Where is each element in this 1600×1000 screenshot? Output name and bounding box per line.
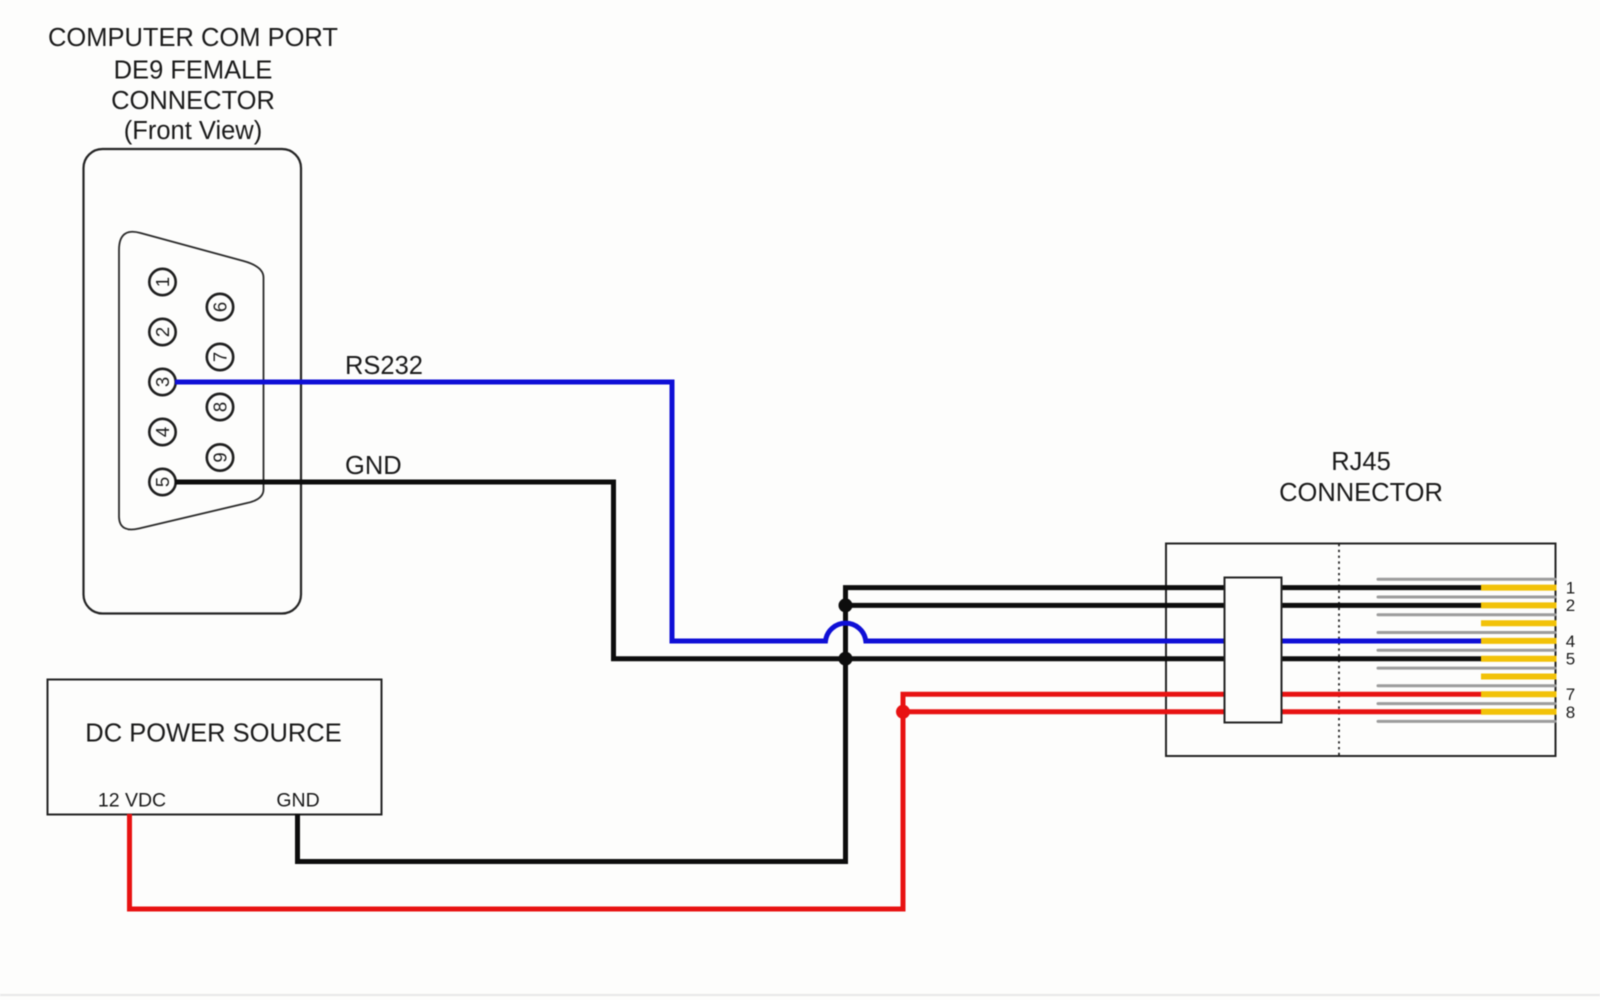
svg-text:5: 5 xyxy=(1566,650,1575,669)
svg-text:3: 3 xyxy=(152,377,173,387)
svg-text:12 VDC: 12 VDC xyxy=(98,790,166,812)
svg-text:(Front View): (Front View) xyxy=(124,117,262,145)
svg-text:GND: GND xyxy=(345,452,402,480)
svg-text:RJ45: RJ45 xyxy=(1331,448,1391,476)
svg-text:8: 8 xyxy=(1566,703,1575,722)
svg-text:4: 4 xyxy=(1566,632,1575,651)
svg-text:DE9 FEMALE: DE9 FEMALE xyxy=(114,56,273,84)
svg-text:CONNECTOR: CONNECTOR xyxy=(1279,479,1443,507)
svg-text:4: 4 xyxy=(152,427,173,437)
svg-text:8: 8 xyxy=(210,402,231,412)
svg-text:1: 1 xyxy=(152,277,173,287)
svg-text:7: 7 xyxy=(1566,685,1575,704)
svg-text:RS232: RS232 xyxy=(345,352,423,380)
svg-text:DC POWER SOURCE: DC POWER SOURCE xyxy=(85,720,341,748)
svg-text:2: 2 xyxy=(1566,596,1575,615)
svg-text:GND: GND xyxy=(276,790,319,812)
svg-text:9: 9 xyxy=(210,452,231,462)
svg-text:6: 6 xyxy=(210,302,231,312)
svg-text:CONNECTOR: CONNECTOR xyxy=(111,87,275,115)
svg-text:7: 7 xyxy=(210,352,231,362)
svg-text:1: 1 xyxy=(1566,578,1575,597)
svg-text:5: 5 xyxy=(152,477,173,487)
svg-text:2: 2 xyxy=(152,327,173,337)
svg-text:COMPUTER COM PORT: COMPUTER COM PORT xyxy=(48,24,338,52)
